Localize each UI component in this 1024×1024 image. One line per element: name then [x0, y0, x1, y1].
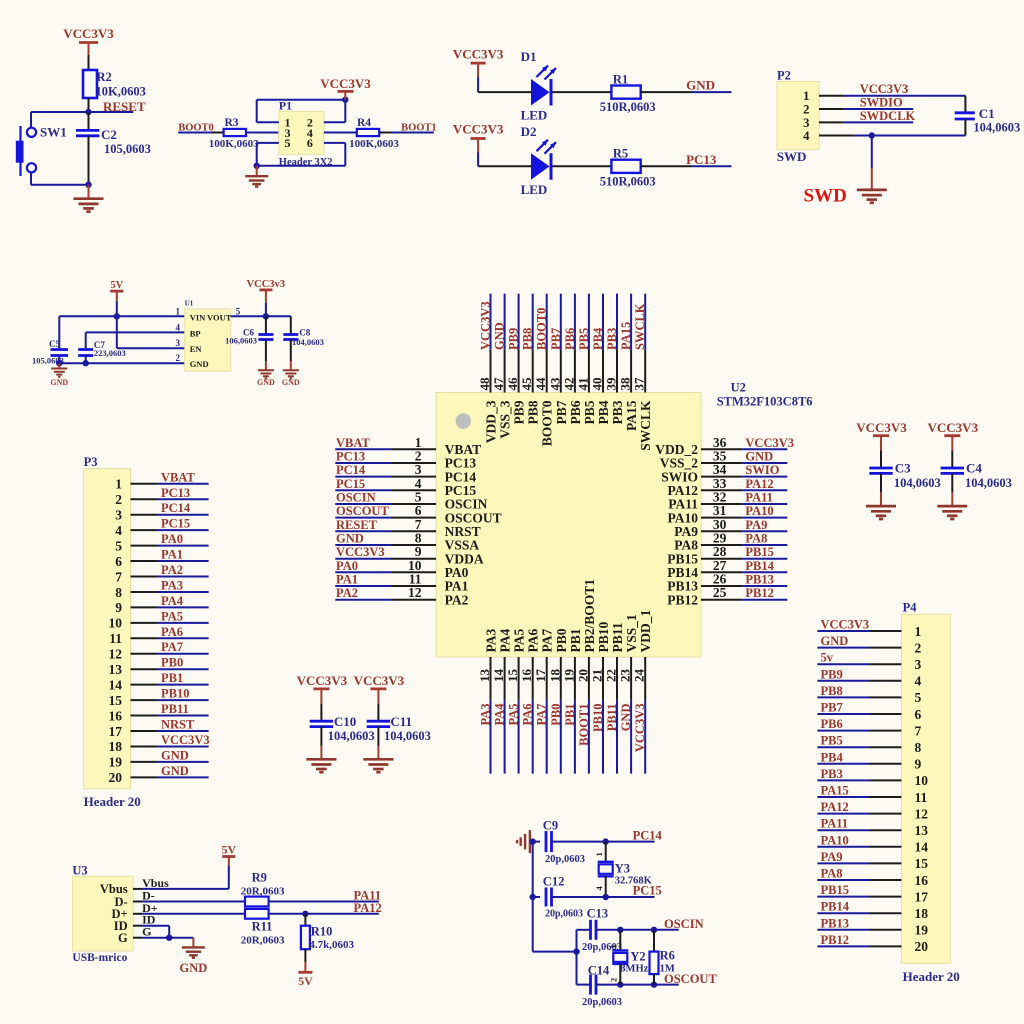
svg-text:PB13: PB13: [821, 916, 849, 930]
svg-text:VCC3V3: VCC3V3: [63, 26, 114, 41]
svg-text:PB12: PB12: [667, 592, 698, 607]
svg-text:GND: GND: [180, 961, 208, 975]
svg-text:P4: P4: [903, 601, 918, 615]
svg-text:PB5: PB5: [577, 328, 591, 350]
svg-text:21: 21: [590, 669, 605, 682]
svg-text:PA5: PA5: [507, 704, 521, 726]
svg-text:47: 47: [491, 377, 506, 390]
svg-text:VSS_1: VSS_1: [624, 614, 639, 653]
svg-text:PA2: PA2: [336, 586, 358, 600]
svg-text:2: 2: [176, 353, 181, 363]
svg-text:PB9: PB9: [507, 328, 521, 350]
svg-text:VSS_3: VSS_3: [498, 400, 513, 439]
svg-text:PB5: PB5: [821, 734, 843, 748]
svg-text:VOUT: VOUT: [207, 312, 232, 322]
svg-text:3: 3: [176, 338, 181, 348]
svg-text:38: 38: [618, 377, 633, 391]
svg-text:PA3: PA3: [161, 579, 183, 593]
svg-text:VDD_1: VDD_1: [638, 610, 653, 653]
svg-text:P2: P2: [777, 69, 791, 83]
svg-text:PC14: PC14: [161, 501, 191, 515]
svg-text:R5: R5: [613, 147, 628, 161]
svg-text:U1: U1: [185, 300, 194, 308]
svg-text:13: 13: [109, 662, 123, 677]
svg-text:D1: D1: [521, 49, 537, 64]
svg-text:VCC3V3: VCC3V3: [336, 545, 385, 559]
svg-text:24: 24: [632, 669, 647, 683]
svg-text:GND: GND: [336, 532, 364, 546]
svg-text:20R,0603: 20R,0603: [241, 935, 285, 947]
svg-text:11: 11: [109, 631, 122, 646]
svg-text:D2: D2: [521, 124, 537, 139]
svg-text:PB5: PB5: [582, 400, 597, 424]
svg-text:104,0603: 104,0603: [292, 337, 324, 347]
svg-text:BOOT1: BOOT1: [577, 704, 591, 746]
svg-text:VCC3V3: VCC3V3: [479, 301, 493, 350]
svg-text:R3: R3: [225, 117, 239, 129]
svg-text:PA7: PA7: [161, 640, 183, 654]
svg-text:GND: GND: [161, 764, 189, 778]
svg-text:14: 14: [491, 669, 506, 683]
svg-text:4: 4: [176, 322, 181, 332]
svg-text:SWDIO: SWDIO: [860, 96, 903, 110]
svg-text:STM32F103C8T6: STM32F103C8T6: [717, 395, 813, 409]
svg-text:PB7: PB7: [821, 701, 843, 715]
svg-text:43: 43: [547, 377, 562, 391]
svg-text:BP: BP: [190, 328, 201, 338]
svg-text:14: 14: [915, 840, 929, 855]
svg-text:5V: 5V: [221, 843, 236, 857]
svg-text:8MHz: 8MHz: [620, 964, 648, 975]
svg-text:3: 3: [915, 657, 922, 672]
svg-text:104,0603: 104,0603: [894, 476, 941, 490]
svg-text:1: 1: [609, 944, 619, 948]
svg-text:25: 25: [713, 585, 727, 600]
svg-text:C8: C8: [299, 327, 310, 337]
svg-text:8: 8: [115, 585, 122, 600]
svg-text:11: 11: [915, 790, 928, 805]
svg-text:PA3: PA3: [484, 629, 499, 653]
svg-text:4.7k,0603: 4.7k,0603: [309, 939, 354, 951]
svg-text:104,0603: 104,0603: [384, 729, 431, 743]
svg-text:106,0603: 106,0603: [225, 336, 257, 346]
svg-text:LED: LED: [521, 108, 548, 123]
svg-text:18: 18: [547, 669, 562, 683]
svg-text:PA6: PA6: [521, 704, 535, 726]
svg-text:PB0: PB0: [161, 656, 183, 670]
svg-text:PB6: PB6: [568, 400, 583, 424]
svg-text:PA12: PA12: [821, 800, 849, 814]
svg-text:PA7: PA7: [540, 629, 555, 653]
svg-text:PB8: PB8: [821, 684, 843, 698]
svg-text:1: 1: [115, 477, 122, 492]
svg-text:4: 4: [803, 128, 810, 143]
svg-text:PA5: PA5: [512, 629, 527, 653]
svg-text:C2: C2: [101, 127, 117, 142]
svg-text:510R,0603: 510R,0603: [600, 100, 656, 114]
svg-text:PA10: PA10: [821, 833, 849, 847]
svg-text:5v: 5v: [821, 651, 834, 665]
svg-text:PA1: PA1: [336, 573, 358, 587]
svg-text:PA8: PA8: [821, 867, 843, 881]
svg-text:17: 17: [915, 889, 929, 904]
svg-text:PA11: PA11: [821, 817, 849, 831]
svg-text:VCC3V3: VCC3V3: [745, 436, 794, 450]
svg-text:SWIO: SWIO: [745, 463, 779, 477]
svg-text:OSCIN: OSCIN: [664, 917, 704, 931]
svg-text:PB4: PB4: [821, 750, 844, 764]
svg-text:10: 10: [915, 773, 929, 788]
svg-text:PB0: PB0: [554, 628, 569, 652]
svg-text:RESET: RESET: [336, 518, 378, 532]
svg-text:39: 39: [604, 377, 619, 391]
svg-text:PB1: PB1: [568, 628, 583, 652]
svg-text:PA0: PA0: [161, 532, 183, 546]
svg-text:23: 23: [618, 669, 633, 683]
svg-text:C11: C11: [390, 714, 412, 729]
svg-text:4: 4: [594, 886, 604, 891]
svg-text:104,0603: 104,0603: [965, 476, 1012, 490]
svg-text:PA15: PA15: [619, 322, 633, 350]
svg-text:VCC3V3: VCC3V3: [320, 76, 371, 91]
svg-text:PB11: PB11: [605, 704, 619, 732]
svg-text:C1: C1: [979, 106, 995, 121]
svg-text:14: 14: [109, 677, 123, 692]
svg-text:C4: C4: [966, 461, 982, 476]
svg-text:VCC3V3: VCC3V3: [856, 420, 907, 435]
svg-text:40: 40: [590, 378, 605, 391]
svg-text:10K,0603: 10K,0603: [96, 85, 146, 99]
svg-text:GND: GND: [257, 378, 275, 387]
svg-text:13: 13: [477, 669, 492, 683]
svg-text:PC15: PC15: [161, 517, 190, 531]
svg-text:PA11: PA11: [745, 491, 773, 505]
svg-text:BOOT0: BOOT0: [540, 400, 555, 446]
svg-text:PB8: PB8: [521, 328, 535, 350]
svg-text:20: 20: [109, 770, 123, 785]
svg-text:VDD_3: VDD_3: [484, 400, 499, 443]
svg-text:G: G: [142, 925, 151, 939]
svg-text:GND: GND: [745, 450, 773, 464]
svg-text:R4: R4: [357, 117, 371, 129]
svg-text:PA5: PA5: [161, 609, 183, 623]
svg-text:PA2: PA2: [161, 563, 183, 577]
svg-text:VCC3V3: VCC3V3: [453, 122, 504, 137]
svg-text:2: 2: [915, 640, 922, 655]
svg-text:4: 4: [115, 523, 122, 538]
svg-text:PA4: PA4: [161, 594, 184, 608]
svg-text:PA6: PA6: [161, 625, 183, 639]
svg-text:VCC3V3: VCC3V3: [161, 733, 210, 747]
svg-text:PB10: PB10: [596, 621, 611, 652]
svg-text:17: 17: [533, 669, 548, 683]
svg-text:18: 18: [109, 739, 123, 754]
svg-text:3: 3: [115, 508, 122, 523]
svg-text:1: 1: [594, 852, 604, 856]
svg-text:SWDCLK: SWDCLK: [860, 109, 916, 123]
svg-text:12: 12: [915, 806, 929, 821]
svg-text:R6: R6: [660, 949, 675, 963]
svg-text:GND: GND: [50, 378, 68, 387]
svg-text:PB3: PB3: [605, 328, 619, 350]
svg-text:20p,0603: 20p,0603: [582, 997, 622, 1008]
svg-text:PB9: PB9: [821, 667, 843, 681]
svg-text:PB14: PB14: [821, 900, 850, 914]
svg-text:37: 37: [632, 377, 647, 391]
svg-text:5V: 5V: [110, 280, 123, 291]
svg-text:PA9: PA9: [745, 518, 767, 532]
svg-text:510R,0603: 510R,0603: [600, 174, 656, 188]
svg-text:SW1: SW1: [40, 125, 67, 140]
svg-text:PA12: PA12: [354, 901, 382, 915]
svg-text:20p,0603: 20p,0603: [545, 854, 585, 865]
svg-text:C14: C14: [588, 963, 610, 977]
svg-text:15: 15: [505, 669, 520, 683]
svg-text:R1: R1: [613, 73, 628, 87]
svg-text:PA12: PA12: [745, 477, 773, 491]
svg-text:G: G: [118, 931, 128, 945]
svg-text:SWD: SWD: [777, 149, 807, 164]
svg-text:R10: R10: [311, 925, 333, 939]
svg-text:VCC3V3: VCC3V3: [821, 618, 870, 632]
svg-text:7: 7: [915, 723, 922, 738]
svg-text:PB8: PB8: [526, 400, 541, 424]
svg-text:20R,0603: 20R,0603: [241, 886, 285, 898]
svg-text:PB6: PB6: [821, 717, 843, 731]
svg-text:PA7: PA7: [535, 704, 549, 726]
svg-text:PA3: PA3: [479, 704, 493, 726]
svg-text:PA15: PA15: [624, 400, 639, 431]
svg-text:PB14: PB14: [745, 559, 774, 573]
svg-text:PC13: PC13: [336, 450, 365, 464]
svg-text:P3: P3: [84, 455, 98, 469]
svg-text:PB1: PB1: [563, 704, 577, 726]
svg-text:PB12: PB12: [745, 586, 773, 600]
svg-text:PA10: PA10: [745, 504, 773, 518]
svg-text:Header 20: Header 20: [84, 794, 141, 809]
svg-text:R2: R2: [97, 70, 112, 84]
svg-text:9: 9: [915, 757, 922, 772]
svg-text:GND: GND: [686, 78, 715, 93]
svg-text:12: 12: [408, 585, 422, 600]
svg-text:OSCIN: OSCIN: [336, 491, 376, 505]
svg-text:Y2: Y2: [630, 950, 645, 964]
svg-text:5: 5: [915, 690, 922, 705]
svg-text:BOOT1: BOOT1: [401, 123, 437, 134]
svg-text:22: 22: [604, 669, 619, 682]
svg-text:VBAT: VBAT: [336, 436, 370, 450]
svg-text:10: 10: [109, 616, 123, 631]
svg-text:18: 18: [915, 906, 929, 921]
svg-text:15: 15: [109, 693, 123, 708]
svg-text:6: 6: [115, 554, 122, 569]
svg-text:PC14: PC14: [633, 829, 663, 843]
svg-text:C5: C5: [49, 339, 60, 349]
svg-text:45: 45: [519, 377, 534, 391]
svg-text:GND: GND: [821, 634, 849, 648]
svg-text:GND: GND: [619, 704, 633, 732]
svg-text:2: 2: [609, 978, 619, 982]
svg-text:223,0603: 223,0603: [94, 348, 126, 358]
svg-text:VCC3V3: VCC3V3: [860, 82, 909, 96]
svg-text:BOOT0: BOOT0: [535, 308, 549, 350]
svg-text:20: 20: [915, 939, 929, 954]
svg-text:8: 8: [915, 740, 922, 755]
svg-text:VCC3V3: VCC3V3: [354, 673, 405, 688]
svg-text:6: 6: [915, 707, 922, 722]
svg-text:104,0603: 104,0603: [973, 121, 1020, 135]
svg-text:7: 7: [115, 569, 122, 584]
svg-text:U3: U3: [72, 864, 87, 878]
svg-text:44: 44: [533, 377, 548, 391]
svg-text:GND: GND: [282, 378, 300, 387]
svg-text:SWD: SWD: [804, 186, 847, 207]
svg-text:SWCLK: SWCLK: [638, 400, 653, 451]
svg-text:C9: C9: [543, 819, 558, 833]
svg-text:GND: GND: [493, 322, 507, 350]
svg-text:12: 12: [109, 647, 123, 662]
svg-text:PB7: PB7: [554, 400, 569, 424]
svg-text:PB4: PB4: [596, 400, 611, 424]
svg-text:PB6: PB6: [563, 328, 577, 350]
svg-text:PC13: PC13: [161, 486, 190, 500]
svg-text:5V: 5V: [298, 974, 313, 988]
svg-text:NRST: NRST: [161, 718, 195, 732]
svg-text:PB12: PB12: [821, 933, 849, 947]
svg-text:1: 1: [915, 624, 922, 639]
svg-text:41: 41: [575, 378, 590, 391]
svg-text:16: 16: [109, 708, 123, 723]
svg-text:PA6: PA6: [526, 629, 541, 653]
svg-text:PA4: PA4: [498, 629, 513, 653]
svg-text:PB15: PB15: [745, 545, 773, 559]
svg-text:PB2/BOOT1: PB2/BOOT1: [582, 579, 597, 653]
svg-text:PB7: PB7: [549, 328, 563, 350]
svg-text:1M: 1M: [660, 964, 675, 975]
svg-text:5: 5: [115, 538, 122, 553]
svg-text:PC13: PC13: [686, 152, 717, 167]
svg-text:PB9: PB9: [512, 400, 527, 424]
svg-text:PA2: PA2: [445, 592, 469, 607]
svg-text:PA8: PA8: [745, 532, 767, 546]
svg-text:PB0: PB0: [549, 704, 563, 726]
svg-text:100K,0603: 100K,0603: [349, 138, 399, 150]
svg-text:PB3: PB3: [821, 767, 843, 781]
svg-text:19: 19: [109, 755, 123, 770]
svg-text:19: 19: [915, 923, 929, 938]
svg-text:48: 48: [477, 377, 492, 391]
svg-text:C13: C13: [587, 907, 609, 921]
svg-text:GND: GND: [190, 359, 209, 369]
svg-text:4: 4: [915, 674, 922, 689]
svg-text:C10: C10: [334, 714, 356, 729]
svg-text:6: 6: [307, 136, 313, 150]
svg-text:PB3: PB3: [610, 400, 625, 424]
svg-text:PC15: PC15: [336, 477, 365, 491]
svg-text:PB4: PB4: [591, 327, 605, 350]
svg-text:LED: LED: [521, 182, 548, 197]
svg-text:VCC3V3: VCC3V3: [297, 673, 348, 688]
svg-text:PA9: PA9: [821, 850, 843, 864]
svg-text:Header 20: Header 20: [903, 969, 960, 984]
svg-text:17: 17: [109, 724, 123, 739]
svg-text:15: 15: [915, 856, 929, 871]
svg-text:PC14: PC14: [336, 463, 366, 477]
svg-text:R9: R9: [252, 871, 267, 885]
svg-text:13: 13: [915, 823, 929, 838]
svg-text:16: 16: [915, 873, 929, 888]
svg-text:C3: C3: [895, 461, 911, 476]
svg-text:VCC3v3: VCC3v3: [247, 279, 286, 290]
svg-text:20: 20: [575, 669, 590, 682]
svg-text:16: 16: [519, 669, 534, 683]
svg-text:PB15: PB15: [821, 883, 849, 897]
svg-text:VBAT: VBAT: [161, 470, 195, 484]
svg-text:Y3: Y3: [615, 862, 630, 876]
svg-text:19: 19: [561, 669, 576, 683]
svg-text:PB11: PB11: [161, 702, 189, 716]
svg-text:PA15: PA15: [821, 784, 849, 798]
svg-text:PB1: PB1: [161, 671, 183, 685]
svg-text:9: 9: [115, 600, 122, 615]
svg-text:VIN: VIN: [190, 312, 206, 322]
svg-text:R11: R11: [252, 920, 273, 934]
svg-text:SWCLK: SWCLK: [633, 303, 647, 350]
svg-text:PA1: PA1: [161, 548, 183, 562]
svg-text:OSCOUT: OSCOUT: [336, 504, 389, 518]
svg-text:PA4: PA4: [493, 703, 507, 726]
svg-text:C12: C12: [543, 875, 565, 889]
svg-text:U2: U2: [731, 381, 746, 395]
svg-text:VCC3V3: VCC3V3: [633, 704, 647, 753]
svg-text:EN: EN: [190, 344, 203, 354]
svg-text:PB13: PB13: [745, 573, 773, 587]
svg-text:PB11: PB11: [610, 622, 625, 652]
svg-text:20p,0603: 20p,0603: [545, 909, 583, 920]
svg-text:5: 5: [236, 306, 241, 316]
svg-text:PC15: PC15: [633, 884, 662, 898]
svg-text:104,0603: 104,0603: [328, 729, 375, 743]
svg-text:PB10: PB10: [591, 704, 605, 732]
svg-text:1: 1: [176, 306, 181, 316]
svg-text:PB10: PB10: [161, 687, 189, 701]
svg-text:100K,0603: 100K,0603: [209, 138, 259, 150]
svg-text:PA0: PA0: [336, 559, 358, 573]
svg-text:46: 46: [505, 377, 520, 391]
svg-text:GND: GND: [161, 748, 189, 762]
svg-text:VCC3V3: VCC3V3: [453, 47, 504, 62]
svg-text:105,0603: 105,0603: [104, 142, 151, 156]
svg-text:USB-mrico: USB-mrico: [72, 952, 127, 964]
svg-text:42: 42: [561, 378, 576, 391]
svg-text:2: 2: [115, 492, 122, 507]
svg-text:VCC3V3: VCC3V3: [928, 420, 979, 435]
svg-text:5: 5: [285, 136, 291, 150]
